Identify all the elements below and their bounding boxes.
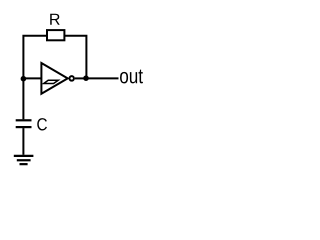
hysteresis symbol inside U1 bbox=[44, 80, 59, 83]
node: junction dot left bbox=[21, 76, 27, 82]
wire: capacitor to ground bbox=[22, 128, 24, 155]
wire: output stub to label bbox=[86, 77, 118, 79]
wire: top feedback rail (left corner to right corner) bbox=[23, 36, 86, 79]
capacitor C bottom plate bbox=[16, 126, 32, 128]
inverter U1 (Schmitt trigger) triangle bbox=[41, 63, 67, 94]
inverter U1 output bubble bbox=[69, 76, 74, 81]
node: junction dot right (output) bbox=[83, 75, 89, 81]
ground symbol bbox=[14, 156, 34, 164]
label R bbox=[50, 14, 60, 25]
resistor R bbox=[47, 30, 64, 40]
capacitor C top plate bbox=[16, 119, 32, 121]
wire: bubble to output node bbox=[75, 77, 87, 79]
label out bbox=[120, 70, 143, 84]
wire: left rail down to capacitor bbox=[22, 78, 24, 119]
wire: input from left rail to inverter bbox=[23, 77, 41, 79]
label C bbox=[37, 118, 47, 130]
